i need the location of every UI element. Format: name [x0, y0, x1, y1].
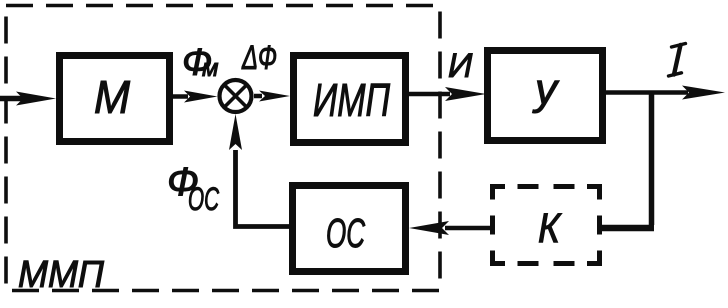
svg-text:ИМП: ИМП	[313, 74, 390, 126]
svg-text:К: К	[538, 204, 562, 251]
svg-text:м: м	[202, 55, 218, 82]
svg-text:ΔФ: ΔФ	[241, 39, 277, 77]
svg-text:И: И	[448, 47, 473, 85]
svg-text:ОС: ОС	[188, 181, 220, 217]
svg-text:у: у	[532, 65, 560, 114]
svg-text:ММП: ММП	[18, 254, 104, 296]
svg-text:М: М	[94, 71, 131, 123]
svg-text:ОС: ОС	[326, 210, 365, 256]
